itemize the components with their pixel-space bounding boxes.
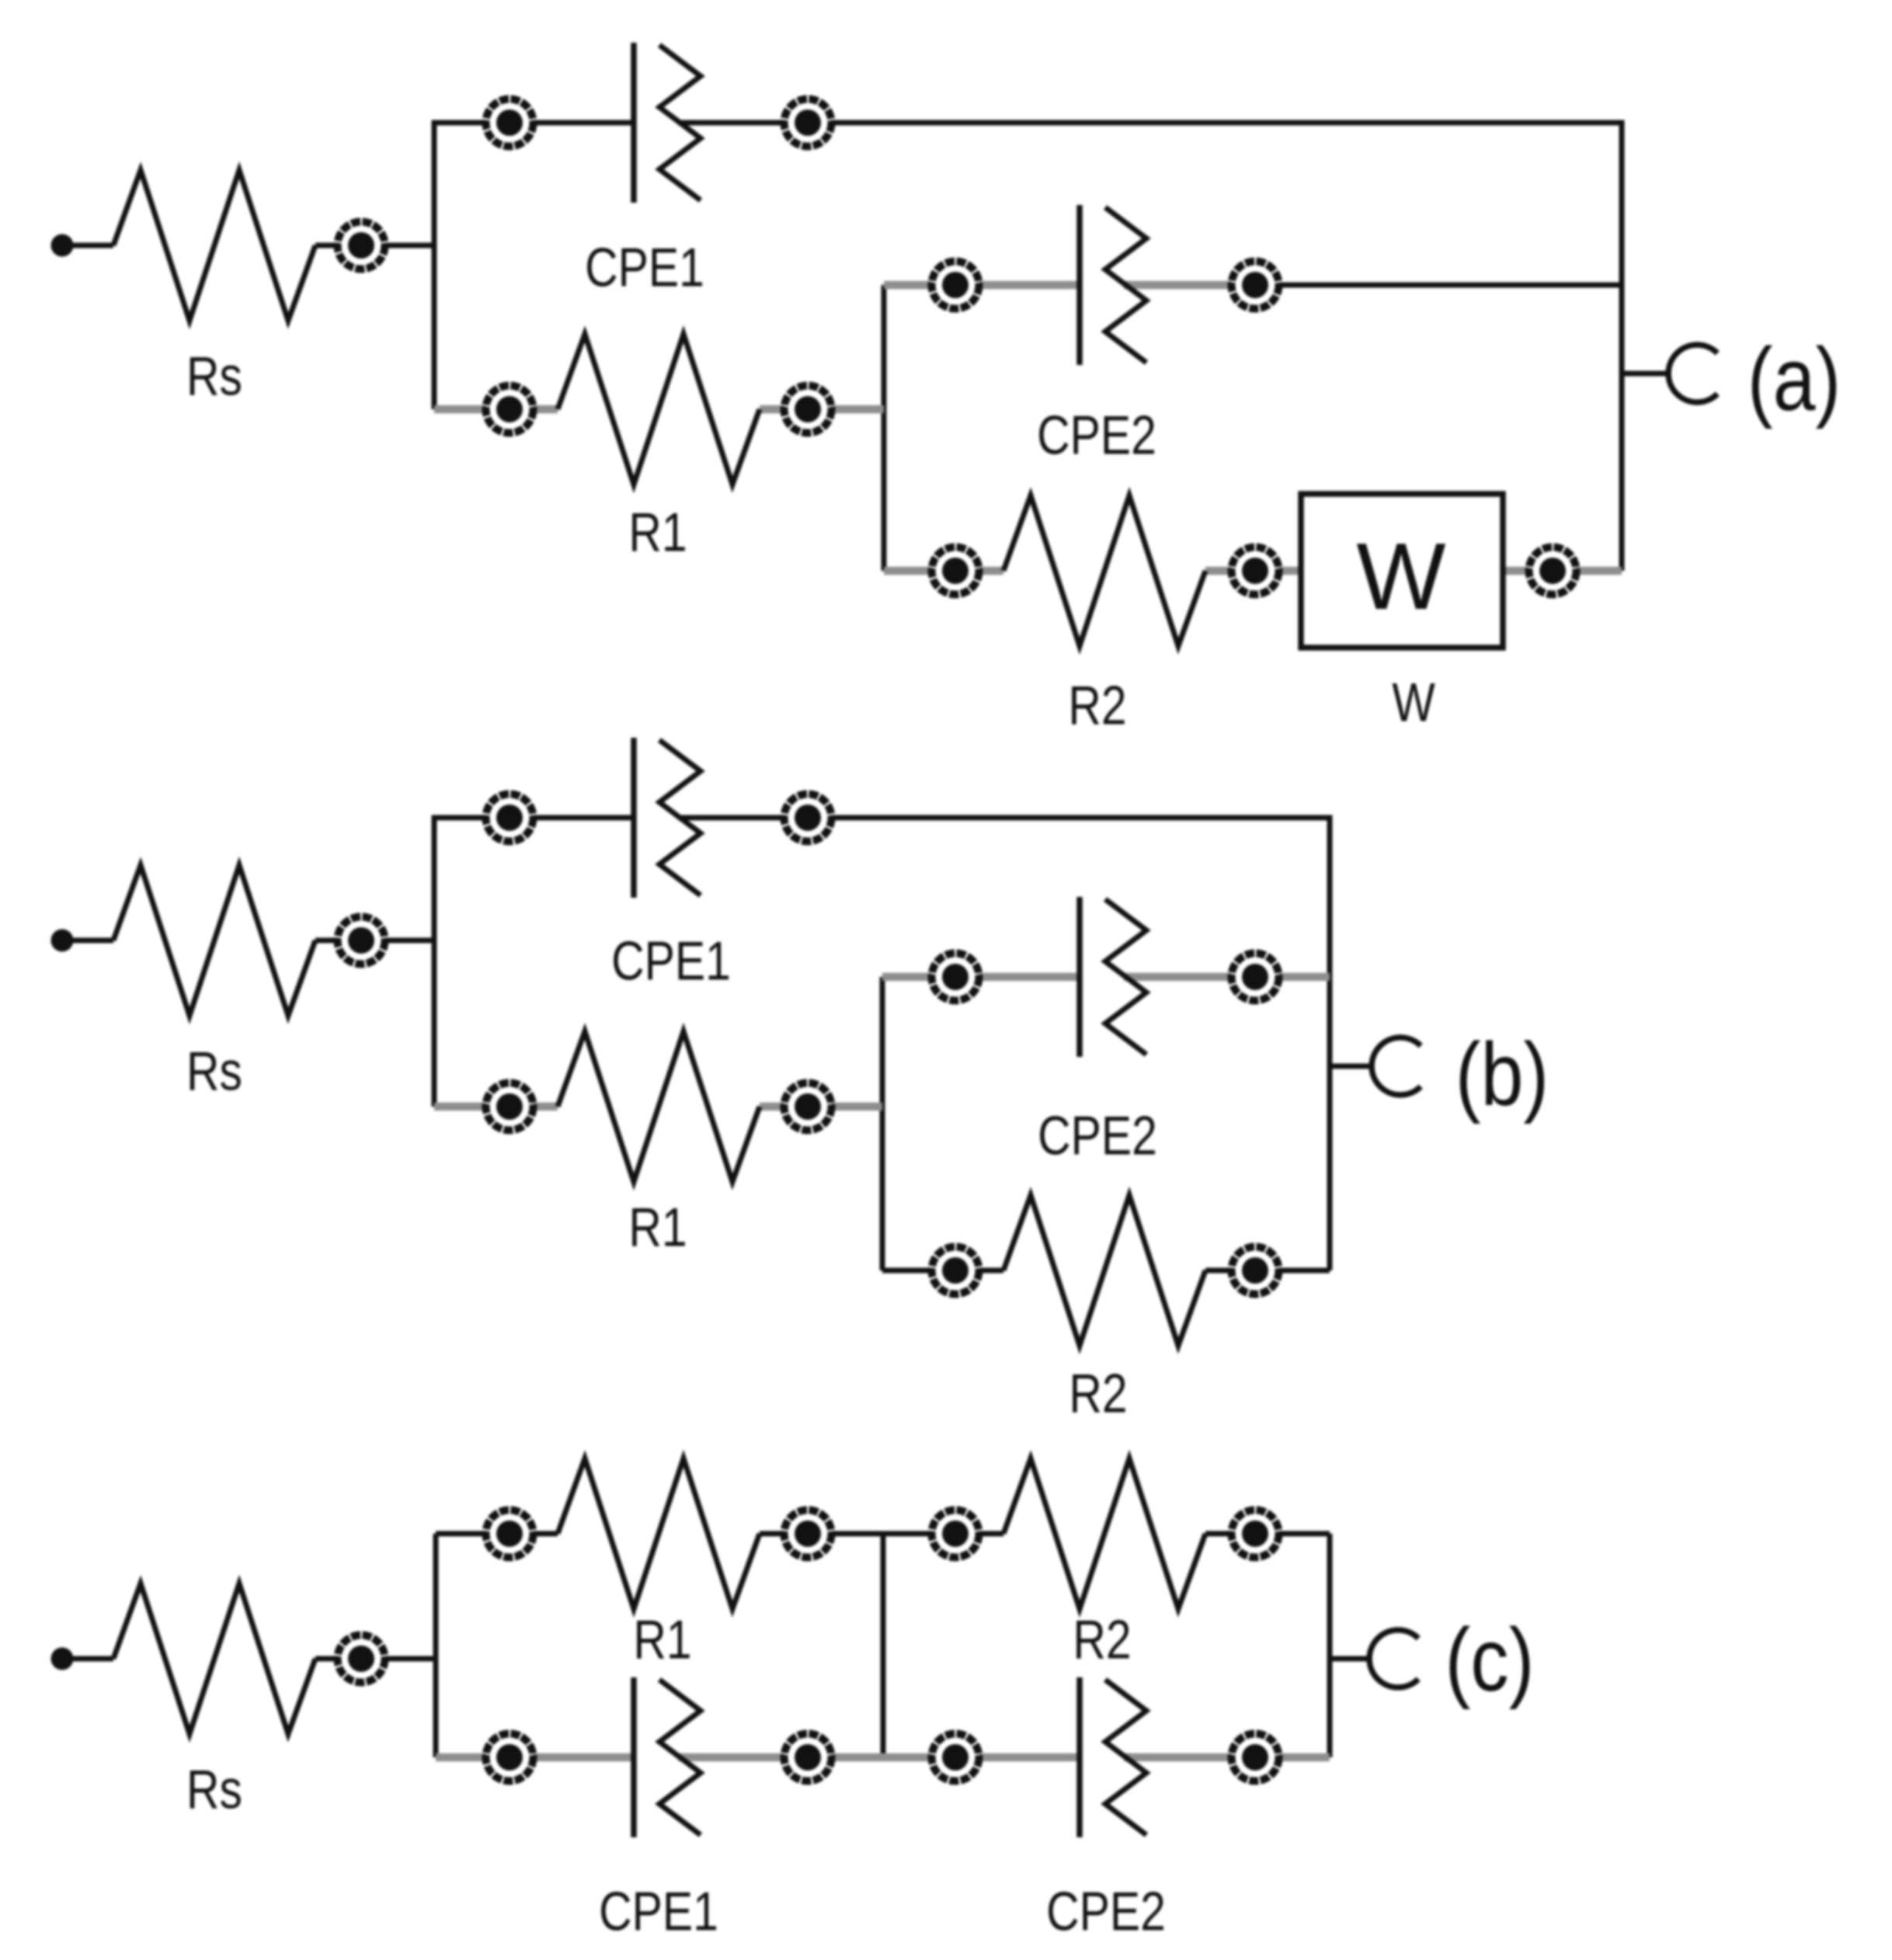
svg-text:(c): (c): [1445, 1610, 1535, 1710]
svg-text:R2: R2: [1069, 1362, 1127, 1423]
svg-text:W: W: [1392, 671, 1435, 732]
svg-text:CPE1: CPE1: [585, 236, 704, 297]
svg-text:R1: R1: [628, 1196, 687, 1257]
svg-text:CPE1: CPE1: [611, 930, 731, 991]
svg-text:CPE2: CPE2: [1037, 404, 1156, 465]
svg-text:Rs: Rs: [186, 345, 242, 406]
svg-text:R2: R2: [1073, 1608, 1131, 1670]
svg-text:R2: R2: [1068, 674, 1126, 735]
svg-text:CPE1: CPE1: [599, 1880, 718, 1941]
svg-text:(b): (b): [1456, 1024, 1549, 1124]
svg-text:CPE2: CPE2: [1038, 1104, 1157, 1166]
svg-text:Rs: Rs: [186, 1040, 242, 1101]
svg-text:R1: R1: [633, 1608, 691, 1670]
svg-text:(a): (a): [1748, 329, 1841, 429]
svg-text:W: W: [1356, 523, 1445, 629]
svg-text:CPE2: CPE2: [1046, 1880, 1166, 1941]
svg-text:Rs: Rs: [186, 1758, 242, 1819]
svg-text:R1: R1: [628, 501, 687, 562]
